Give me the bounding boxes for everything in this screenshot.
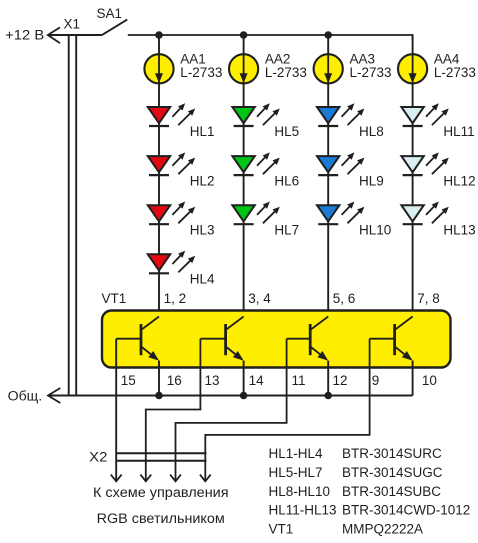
LED HL5	[232, 103, 279, 126]
svg-text:HL12: HL12	[443, 173, 475, 188]
connector X1 pin 1 (+12 V) arrow	[48, 27, 60, 43]
current regulator AA3	[314, 54, 343, 83]
connector X2 pin 1 arrow	[111, 475, 122, 482]
svg-text:BTR-3014CWD-1012: BTR-3014CWD-1012	[342, 503, 470, 518]
node junction common rail / emitter VT1.2	[240, 392, 248, 400]
connector X1 pin 2 (common) arrow	[48, 388, 60, 403]
wire base VT1.1 to X2 pin 1	[115, 339, 117, 482]
svg-text:HL8-HL10: HL8-HL10	[269, 484, 331, 499]
LED HL11	[401, 103, 448, 126]
node junction common rail / emitter VT1.1	[155, 392, 163, 400]
connector X1 lead 1 (vertical)	[68, 36, 70, 396]
svg-text:1, 2: 1, 2	[164, 291, 187, 306]
wire +12V from X1 to SA1	[48, 34, 103, 36]
svg-text:BTR-3014SUBC: BTR-3014SUBC	[342, 484, 441, 499]
svg-text:HL8: HL8	[359, 124, 384, 139]
transistor VT1.4	[370, 317, 413, 361]
LED HL10	[317, 202, 364, 225]
svg-text:14: 14	[249, 373, 265, 388]
svg-text:HL10: HL10	[359, 222, 391, 237]
svg-text:MMPQ2222A: MMPQ2222A	[342, 521, 423, 536]
svg-text:HL4: HL4	[190, 272, 215, 287]
IC VT1 package outline (quad transistor MMPQ2222A)	[102, 311, 451, 368]
svg-text:7, 8: 7, 8	[417, 291, 440, 306]
svg-text:SA1: SA1	[97, 6, 123, 21]
current regulator AA4	[398, 54, 427, 83]
wire emitter VT1.3 to common rail	[327, 361, 329, 396]
connector X1 lead 2 (vertical)	[75, 36, 77, 396]
transistor VT1.3	[287, 317, 329, 361]
svg-text:3, 4: 3, 4	[248, 291, 271, 306]
svg-text:L-2733: L-2733	[265, 65, 307, 80]
transistor VT1.1	[116, 317, 159, 361]
connector X2 pin 2 arrow	[140, 475, 151, 482]
svg-text:BTR-3014SUGC: BTR-3014SUGC	[342, 465, 443, 480]
wire branch 4 vertical (collector column)	[412, 35, 414, 317]
svg-text:+12 В: +12 В	[5, 28, 44, 43]
svg-text:9: 9	[372, 373, 380, 388]
svg-text:16: 16	[167, 373, 182, 388]
svg-text:HL5-HL7: HL5-HL7	[269, 465, 323, 480]
wire emitter VT1.4 to common rail	[412, 361, 414, 396]
svg-text:HL1-HL4: HL1-HL4	[269, 446, 324, 461]
svg-text:Общ.: Общ.	[8, 388, 43, 403]
svg-text:HL6: HL6	[274, 173, 299, 188]
LED HL4	[148, 251, 195, 274]
svg-text:HL9: HL9	[359, 173, 384, 188]
current regulator AA1	[144, 54, 173, 83]
svg-text:12: 12	[333, 373, 348, 388]
transistor VT1.2	[200, 317, 243, 361]
svg-text:X1: X1	[64, 17, 81, 32]
LED HL3	[148, 202, 195, 225]
connector X2 bar 1	[116, 452, 206, 454]
svg-text:L-2733: L-2733	[434, 65, 476, 80]
wire base VT1.3 to X2 pin 3	[176, 339, 287, 482]
svg-text:VT1: VT1	[269, 521, 294, 536]
LED HL13	[401, 202, 448, 225]
LED HL2	[148, 152, 195, 175]
svg-text:HL11-HL13: HL11-HL13	[269, 503, 337, 518]
LED HL7	[232, 202, 279, 225]
wire branch 1 vertical (collector column)	[158, 35, 160, 317]
wire branch 3 vertical (collector column)	[327, 35, 329, 317]
svg-text:RGB светильником: RGB светильником	[97, 511, 225, 526]
svg-text:BTR-3014SURC: BTR-3014SURC	[342, 446, 442, 461]
node junction top bus / branch 2	[240, 31, 248, 39]
svg-text:HL7: HL7	[274, 222, 299, 237]
LED HL8	[317, 103, 364, 126]
switch SA1 blade	[102, 20, 127, 35]
LED HL9	[317, 152, 364, 175]
svg-text:HL3: HL3	[190, 222, 215, 237]
svg-text:HL13: HL13	[443, 222, 475, 237]
node junction top bus / branch 3	[324, 31, 332, 39]
connector X2 bar 2	[116, 460, 206, 462]
svg-text:L-2733: L-2733	[180, 65, 222, 80]
svg-text:VT1: VT1	[102, 291, 127, 306]
LED HL6	[232, 152, 279, 175]
svg-text:15: 15	[121, 373, 136, 388]
wire branch 2 vertical (collector column)	[243, 35, 245, 317]
wire base VT1.2 to X2 pin 2	[146, 339, 201, 482]
svg-text:HL1: HL1	[190, 124, 215, 139]
svg-text:HL2: HL2	[190, 173, 215, 188]
node junction top bus / branch 1	[155, 31, 163, 39]
wire emitter VT1.2 to common rail	[243, 361, 245, 396]
svg-text:L-2733: L-2733	[350, 65, 392, 80]
LED HL1	[148, 103, 195, 126]
svg-text:HL11: HL11	[443, 124, 474, 139]
wire +12V bus from SA1 to lamp AA4	[128, 35, 413, 41]
svg-text:13: 13	[205, 373, 220, 388]
svg-text:К схеме управления: К схеме управления	[93, 485, 229, 500]
wire common rail	[48, 395, 413, 397]
wire base VT1.4 to X2 pin 4	[205, 339, 369, 482]
wire emitter VT1.1 to common rail	[158, 361, 160, 396]
svg-text:5, 6: 5, 6	[333, 291, 356, 306]
current regulator AA2	[229, 54, 258, 83]
svg-text:HL5: HL5	[274, 124, 299, 139]
node junction common rail / emitter VT1.3	[324, 392, 332, 400]
svg-text:X2: X2	[89, 450, 107, 465]
LED HL12	[401, 152, 448, 175]
svg-text:10: 10	[422, 373, 437, 388]
svg-text:11: 11	[292, 373, 306, 388]
connector X2 pin 4 arrow	[200, 475, 211, 482]
connector X2 pin 3 arrow	[170, 475, 181, 482]
